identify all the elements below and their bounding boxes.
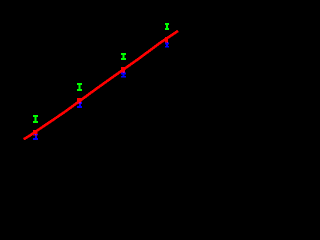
overlap pixel P4 (marker/cap boundary, purple)	[167, 42, 168, 43]
lower error bar B2 (blue)	[77, 102, 82, 108]
lower error bar B3 (blue)	[121, 73, 126, 78]
overlap pixel P2 (marker over cap, purple)	[79, 102, 81, 103]
lower error bar B4 (blue)	[165, 43, 169, 48]
overlap pixel P1 (stem over marker, purple)	[35, 134, 37, 135]
data marker M3 (red square)	[121, 67, 125, 73]
chart: scatter plot with green upper error bars, blue lower error bars, red data markers and red fit line on black background	[0, 0, 192, 157]
data marker M4 (red square)	[165, 37, 168, 43]
upper error bar G3 (green)	[121, 53, 126, 60]
lower error bar B1 (blue)	[33, 134, 38, 140]
plot background	[0, 0, 192, 157]
upper error bar G4 (green)	[165, 23, 169, 30]
overlap pixel P3 (marker/cap boundary, purple)	[123, 72, 125, 73]
data marker M2 (red square)	[77, 98, 81, 103]
upper error bar G2 (green)	[77, 83, 82, 91]
upper error bar G1 (green)	[33, 115, 38, 123]
marker underhang P1 (red below cap)	[33, 134, 37, 136]
data marker M1 (red square)	[33, 130, 37, 135]
fit line (red)	[24, 31, 178, 139]
